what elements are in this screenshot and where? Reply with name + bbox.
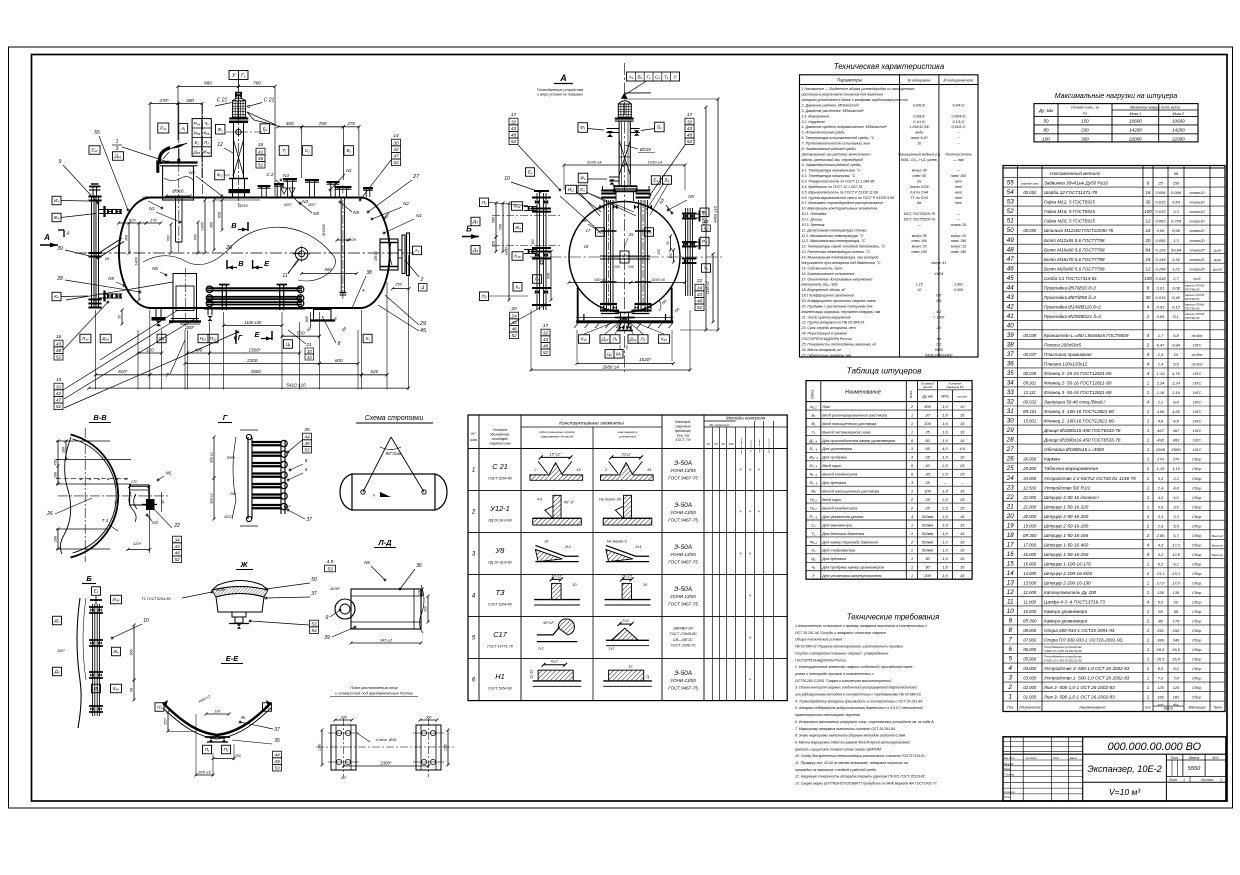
svg-text:10: 10 — [643, 583, 648, 587]
svg-text:01.000: 01.000 — [1023, 695, 1036, 700]
svg-text:Е-Е: Е-Е — [226, 654, 240, 663]
svg-text:0,94: 0,94 — [1172, 342, 1181, 347]
svg-text:Штуцер 1-50-16-460: Штуцер 1-50-16-460 — [1044, 542, 1089, 547]
svg-text:23: 23 — [1006, 484, 1014, 491]
svg-text:нет: нет — [955, 185, 962, 189]
svg-text:Б₁: Б₁ — [657, 125, 662, 130]
svg-text:УОНИ-13/55: УОНИ-13/55 — [670, 468, 696, 473]
svg-text:8,0: 8,0 — [1173, 666, 1179, 671]
svg-text:400: 400 — [286, 121, 294, 126]
svg-text:360: 360 — [210, 221, 214, 228]
svg-text:1: 1 — [911, 556, 913, 561]
svg-text:Камера уровнемера: Камера уровнемера — [1044, 609, 1087, 614]
svg-text:Штуцер 2-50-16-200: Штуцер 2-50-16-200 — [1044, 514, 1089, 519]
svg-text:17,2: 17,2 — [1172, 542, 1181, 547]
svg-text:3: 3 — [911, 446, 914, 451]
svg-text:3: 3 — [472, 552, 476, 558]
svg-text:4: 4 — [1147, 552, 1150, 557]
svg-text:8,8: 8,8 — [1173, 400, 1179, 405]
svg-text:N°: N° — [471, 431, 476, 436]
svg-text:52: 52 — [543, 350, 549, 356]
svg-text:Штуцер 2-50-16-180: Штуцер 2-50-16-180 — [1044, 523, 1089, 528]
svg-text:55: 55 — [94, 130, 100, 136]
svg-text:23. Срок службы аппарата, лет: 23. Срок службы аппарата, лет — [801, 326, 856, 330]
svg-text:ГОСГОРТЕХНАДЗОРом России.: ГОСГОРТЕХНАДЗОРом России. — [795, 658, 847, 662]
svg-text:9.6. Группа взрывоопасной смес: 9.6. Группа взрывоопасной смеси по ГОСТ … — [802, 196, 895, 200]
svg-text:Сбор.: Сбор. — [1192, 562, 1202, 566]
svg-text:45: 45 — [1007, 275, 1014, 282]
svg-text:0,1/1,0/: 0,1/1,0/ — [953, 120, 966, 124]
svg-text:50/мм: 50/мм — [922, 539, 933, 544]
svg-text:Штуцер 1-50-16-165: Штуцер 1-50-16-165 — [1044, 533, 1089, 538]
svg-text:сварочная: сварочная — [675, 425, 691, 429]
svg-text:50/мм: 50/мм — [922, 531, 933, 536]
svg-text:200: 200 — [1080, 127, 1089, 132]
svg-text:37: 37 — [274, 727, 280, 733]
svg-text:4-6: 4-6 — [537, 498, 543, 502]
svg-text:И₃₄: И₃₄ — [113, 597, 120, 602]
svg-text:39: 39 — [1007, 332, 1014, 339]
svg-text:22: 22 — [173, 523, 180, 529]
svg-text:12: 12 — [1146, 219, 1151, 224]
svg-text:паронит ПОН-Б: паронит ПОН-Б — [1185, 294, 1204, 297]
svg-text:П₂: П₂ — [481, 294, 486, 299]
svg-text:09.301: 09.301 — [1023, 381, 1036, 386]
svg-text:0,08: 0,08 — [1172, 285, 1181, 290]
svg-text:38: 38 — [581, 218, 587, 223]
svg-text:08.000: 08.000 — [1023, 628, 1036, 633]
svg-text:риалы и электроды принять в с: риалы и электроды принять в соответствии… — [794, 672, 874, 676]
svg-text:Ду, мм: Ду, мм — [921, 395, 933, 399]
svg-text:18. Внутренний объем, м³: 18. Внутренний объем, м³ — [802, 288, 847, 292]
svg-text:27. Габаритные размеры, мм: 27. Габаритные размеры, мм — [801, 353, 852, 357]
svg-text:Д₅: Д₅ — [472, 219, 478, 224]
svg-text:0,47: 0,47 — [1157, 342, 1166, 347]
svg-text:40: 40 — [1007, 322, 1014, 329]
svg-text:5-500-2,5-2 АТК 24.202.01-90: 5-500-2,5-2 АТК 24.202.01-90 — [1044, 649, 1082, 653]
svg-text:Гайка М12, 5 ГОСТ5915: Гайка М12, 5 ГОСТ5915 — [1044, 199, 1095, 205]
svg-text:ГОСТ 9467-75: ГОСТ 9467-75 — [668, 602, 698, 607]
svg-text:600: 600 — [547, 273, 551, 279]
svg-text:Техническая характеристика: Техническая характеристика — [834, 62, 945, 71]
svg-text:Х₁: Х₁ — [364, 336, 370, 341]
svg-text:4,8: 4,8 — [1158, 419, 1164, 424]
svg-text:12.000: 12.000 — [1023, 590, 1036, 595]
svg-text:N5: N5 — [353, 210, 359, 215]
svg-text:Н.контр.: Н.контр. — [1004, 790, 1016, 794]
svg-text:4,65: 4,65 — [1172, 409, 1181, 414]
svg-text:Условное: Условное — [493, 428, 508, 432]
svg-text:0,268: 0,268 — [1155, 266, 1166, 271]
svg-text:4: 4 — [911, 514, 914, 519]
svg-text:Для камер перепада давления: Для камер перепада давления — [821, 539, 877, 544]
svg-text:0,756: 0,756 — [1171, 219, 1182, 224]
svg-text:—: — — [956, 212, 961, 216]
svg-text:Э-50А: Э-50А — [674, 502, 692, 509]
svg-text:Ц₁: Ц₁ — [811, 556, 816, 561]
svg-text:плюс 55: плюс 55 — [913, 174, 926, 178]
svg-text:16: 16 — [960, 522, 965, 527]
svg-text:Е₂: Е₂ — [195, 140, 200, 145]
svg-text:свариваемых деталей: свариваемых деталей — [541, 435, 574, 439]
svg-text:300: 300 — [305, 315, 309, 322]
svg-text:Е₁₋₃: Е₁₋₃ — [810, 446, 818, 451]
svg-text:Масса: Масса — [1189, 756, 1199, 760]
svg-text:и меры условно не показаны: и меры условно не показаны — [537, 93, 583, 97]
svg-text:7. Продолжительность испытаний: 7. Продолжительность испытаний, мин — [802, 142, 870, 146]
svg-text:6: 6 — [911, 472, 914, 477]
svg-text:12: 12 — [646, 675, 650, 679]
svg-text:Сбор.: Сбор. — [1192, 553, 1202, 557]
svg-text:15. Сейсмичность, балл: 15. Сейсмичность, балл — [802, 266, 843, 270]
svg-text:50: 50 — [1007, 227, 1014, 234]
svg-text:1: 1 — [911, 412, 913, 417]
svg-text:200°: 200° — [56, 648, 66, 653]
svg-text:37: 37 — [311, 591, 317, 597]
svg-text:160°: 160° — [283, 505, 291, 509]
svg-text:У: У — [232, 73, 236, 79]
svg-text:1,15: 1,15 — [916, 283, 923, 287]
svg-text:Гайка М20, 5 ГОСТ5915: Гайка М20, 5 ГОСТ5915 — [1044, 218, 1095, 224]
svg-text:не вскрытие: не вскрытие — [750, 439, 752, 452]
svg-text:21.000: 21.000 — [1022, 504, 1036, 509]
svg-text:давление Ру: давление Ру — [946, 385, 963, 389]
svg-text:52: 52 — [511, 139, 517, 145]
svg-text:14: 14 — [1007, 570, 1014, 577]
svg-text:13. Сварке марки ШХТПБЗНОТ/ОУЗ: 13. Сварке марки ШХТПБЗНОТ/ОУЗВИТ7 прибу… — [795, 782, 938, 786]
svg-text:150: 150 — [669, 253, 673, 259]
svg-text:Теплоноситель: Теплоноситель — [945, 152, 971, 156]
svg-text:Болт М16х60 5.6 ГОСТ7798: Болт М16х60 5.6 ГОСТ7798 — [1044, 247, 1105, 252]
svg-text:5: 5 — [472, 636, 476, 642]
svg-text:да: да — [937, 337, 941, 341]
svg-text:18.1 Коэффициент заполнения: 18.1 Коэффициент заполнения — [802, 294, 855, 298]
svg-text:—: — — [956, 218, 961, 222]
svg-text:2: 2 — [1146, 533, 1150, 538]
svg-text:27: 27 — [412, 174, 420, 180]
svg-text:П₁: П₁ — [205, 747, 210, 752]
svg-text:125: 125 — [1173, 685, 1180, 690]
svg-text:4: 4 — [1147, 352, 1150, 357]
svg-text:Б₁: Б₁ — [263, 126, 268, 131]
svg-text:910*: 910* — [118, 369, 128, 374]
svg-text:00.050: 00.050 — [1023, 228, 1036, 233]
svg-text:52: 52 — [174, 557, 180, 563]
svg-text:—: — — [916, 223, 921, 227]
svg-text:Осевая сила , кг: Осевая сила , кг — [1071, 105, 1099, 109]
svg-text:1 Изготовление, испытание и пр: 1 Изготовление, испытание и приемку аппа… — [795, 624, 927, 628]
svg-text:ГОСТ 5264-80: ГОСТ 5264-80 — [488, 477, 512, 481]
svg-text:Ø57: Ø57 — [307, 203, 316, 207]
svg-text:26,5: 26,5 — [1156, 647, 1166, 652]
svg-text:N3: N3 — [152, 520, 158, 525]
svg-text:сталь10: сталь10 — [1189, 210, 1205, 214]
svg-text:10: 10 — [504, 176, 510, 182]
svg-text:17: 17 — [543, 323, 549, 329]
svg-text:42: 42 — [1007, 303, 1014, 310]
svg-text:Сбор.: Сбор. — [1192, 505, 1202, 509]
svg-text:16: 16 — [647, 468, 652, 472]
svg-text:68: 68 — [1174, 609, 1179, 614]
svg-text:компенсации коррозии, внутренн: компенсации коррозии, внутренн./снаружи,… — [802, 310, 881, 314]
svg-text:0,015: 0,015 — [1155, 200, 1166, 205]
svg-text:16ГС ГОСТ5520-79: 16ГС ГОСТ5520-79 — [903, 212, 935, 216]
svg-text:N3: N3 — [658, 197, 665, 205]
svg-text:9.7. Вызывает сероводородное р: 9.7. Вызывает сероводородное растрескива… — [802, 201, 884, 205]
svg-text:5: 5 — [305, 467, 308, 472]
svg-text:12. Температура самой холодной: 12. Температура самой холодной пятидневк… — [802, 245, 886, 249]
svg-text:54: 54 — [311, 628, 317, 634]
svg-text:3,3: 3,3 — [1173, 514, 1179, 519]
svg-text:2: 2 — [471, 510, 476, 516]
svg-text:материала, (σ)₂₀ /(σ)t,: материала, (σ)₂₀ /(σ)t, — [802, 283, 839, 287]
svg-text:270: 270 — [346, 121, 355, 126]
svg-text:8: 8 — [938, 266, 940, 270]
svg-text:минус 45: минус 45 — [912, 169, 927, 173]
svg-text:1: 1 — [1147, 514, 1150, 519]
svg-text:10. Скобы для крепления теплои: 10. Скобы для крепления теплоизоляции ра… — [795, 754, 926, 758]
svg-text:52: 52 — [56, 355, 62, 361]
svg-text:2,24: 2,24 — [1156, 381, 1166, 386]
svg-text:0,6: 0,6 — [936, 294, 941, 298]
svg-text:0,03: 0,03 — [1157, 304, 1166, 309]
svg-text:0,45: 0,45 — [1172, 295, 1181, 300]
svg-text:160: 160 — [531, 239, 535, 245]
svg-text:1,4: 1,4 — [1158, 362, 1164, 367]
svg-text:Штуцер 1-50-16-250: Штуцер 1-50-16-250 — [1044, 552, 1089, 557]
svg-text:6: 6 — [911, 438, 914, 443]
svg-text:21: 21 — [305, 342, 312, 347]
svg-text:50: 50 — [1043, 119, 1049, 124]
svg-text:К₄: К₄ — [54, 294, 59, 299]
svg-text:43: 43 — [307, 355, 312, 360]
svg-text:минус 33: минус 33 — [951, 245, 966, 249]
svg-text:Кол.: Кол. — [908, 390, 913, 398]
svg-text:Днище Ø1800х16-450 ГОСТ6533-: Днище Ø1800х16-450 ГОСТ6533-78 — [1043, 438, 1121, 443]
svg-text:Экспанзерный газ раствор: моно: Экспанзерный газ раствор: моноэтанол- — [802, 152, 872, 156]
svg-text:Не более 30: Не более 30 — [599, 498, 621, 502]
svg-text:26.000: 26.000 — [1022, 457, 1036, 462]
svg-text:Ду ,мм: Ду ,мм — [1038, 108, 1053, 113]
svg-text:20: 20 — [924, 412, 930, 417]
svg-text:Сбор.: Сбор. — [1192, 610, 1202, 614]
svg-text:200: 200 — [425, 715, 432, 719]
svg-text:1030 ±5: 1030 ±5 — [651, 278, 666, 282]
svg-text:50/мм: 50/мм — [922, 548, 933, 553]
svg-text:32: 32 — [1007, 399, 1014, 406]
svg-text:53: 53 — [274, 766, 280, 772]
svg-text:3: 3 — [1009, 675, 1013, 682]
svg-text:МПа: МПа — [941, 395, 948, 399]
svg-text:Шайба 12 ГОСТ11371-78: Шайба 12 ГОСТ11371-78 — [1044, 189, 1098, 195]
svg-text:100: 100 — [215, 709, 221, 713]
svg-text:14.000: 14.000 — [1023, 571, 1036, 576]
svg-text:00.037: 00.037 — [1023, 352, 1036, 357]
svg-text:0,01: 0,01 — [1157, 285, 1165, 290]
svg-text:84: 84 — [1146, 247, 1151, 252]
svg-text:Н₁: Н₁ — [157, 705, 162, 710]
svg-text:Fz: Fz — [1083, 112, 1087, 116]
svg-text:СВ—08Г2С: СВ—08Г2С — [673, 638, 693, 642]
svg-text:176: 176 — [1173, 619, 1180, 624]
svg-text:4: 4 — [1147, 600, 1150, 605]
svg-text:ГОСТ 9467-75: ГОСТ 9467-75 — [668, 476, 698, 481]
svg-text:22. Группа аппарата по ПБ 03-5: 22. Группа аппарата по ПБ 03-584-03 — [801, 321, 865, 325]
svg-text:12. Наружную поверхность аппар: 12. Наружную поверхность аппарата покрыт… — [795, 775, 926, 779]
svg-text:К₅₆: К₅₆ — [203, 131, 209, 136]
svg-text:+: + — [749, 467, 752, 472]
svg-text:У8: У8 — [495, 546, 506, 555]
svg-text:16ГС ГОСТ5520-79: 16ГС ГОСТ5520-79 — [903, 218, 935, 222]
svg-text:Х₁: Х₁ — [810, 548, 816, 553]
svg-text:12: 12 — [1146, 266, 1151, 271]
svg-text:+: + — [89, 477, 92, 483]
svg-text:Г₁: Г₁ — [812, 429, 816, 434]
svg-text:+: + — [98, 477, 101, 483]
svg-text:37: 37 — [1007, 351, 1014, 358]
svg-text:4: 4 — [1147, 304, 1150, 309]
svg-text:С₁: С₁ — [305, 148, 310, 153]
svg-text:13. Расчетная температура стен: 13. Расчетная температура стенки, °С — [802, 250, 871, 254]
svg-text:У12-1: У12-1 — [489, 504, 510, 513]
svg-text:0,96: 0,96 — [1172, 228, 1181, 233]
svg-text:10: 10 — [960, 404, 965, 409]
svg-text:1: 1 — [938, 321, 940, 325]
svg-text:9.4. Вредность по ГОСТ 12.1.00: 9.4. Вредность по ГОСТ 12.1.007-76 — [802, 185, 863, 189]
svg-text:Полоса 200х50х5: Полоса 200х50х5 — [1044, 342, 1081, 347]
svg-text:2,5: 2,5 — [941, 497, 948, 502]
svg-text:N4: N4 — [661, 299, 667, 305]
svg-text:Сбор.: Сбор. — [1192, 686, 1202, 690]
svg-text:да: да — [917, 180, 921, 184]
svg-text:5410х2680х4400: 5410х2680х4400 — [925, 353, 952, 357]
svg-text:Сбор.: Сбор. — [1192, 696, 1202, 700]
svg-text:Сбор.: Сбор. — [1192, 591, 1202, 595]
svg-text:0,05: 0,05 — [1157, 314, 1166, 319]
svg-text:Наплавленный металл: Наплавленный металл — [1050, 170, 1101, 176]
svg-text:Л₁: Л₁ — [612, 337, 618, 342]
svg-text:2,16: 2,16 — [1156, 390, 1166, 395]
svg-text:4,8: 4,8 — [1173, 419, 1179, 424]
svg-text:16ГС: 16ГС — [1193, 439, 1202, 443]
svg-text:Гайка М16, 5 ГОСТ5915: Гайка М16, 5 ГОСТ5915 — [1044, 208, 1095, 214]
svg-text:Э-50А: Э-50А — [674, 670, 692, 677]
svg-text:60°: 60° — [341, 776, 347, 780]
svg-text:С 21: С 21 — [217, 98, 228, 104]
svg-text:5410 ±10: 5410 ±10 — [286, 382, 306, 387]
svg-text:П₁₂: П₁₂ — [210, 336, 217, 341]
svg-text:Для указателя уровня: Для указателя уровня — [821, 514, 863, 519]
svg-text:Камера уровнемера: Камера уровнемера — [1044, 619, 1087, 624]
svg-text:20.000: 20.000 — [1022, 514, 1036, 519]
svg-text:ц: ц — [373, 493, 375, 497]
svg-text:Для продувки: Для продувки — [821, 455, 847, 460]
svg-text:2: 2 — [533, 468, 537, 472]
svg-text:12,8: 12,8 — [1172, 552, 1181, 557]
svg-text:раствора в результате снижения: раствора в результате снижения для давле… — [801, 93, 884, 97]
svg-text:39: 39 — [324, 635, 330, 641]
svg-text:4,0: 4,0 — [1173, 495, 1179, 500]
svg-text:Ж₂: Ж₂ — [645, 230, 652, 235]
svg-text:2: 2 — [910, 404, 914, 409]
svg-text:25: 25 — [924, 480, 930, 485]
svg-text:39: 39 — [57, 246, 63, 252]
svg-text:300: 300 — [62, 447, 66, 453]
svg-text:паронит ПОН-Б: паронит ПОН-Б — [1185, 304, 1204, 307]
svg-text:С₁: С₁ — [655, 75, 660, 80]
svg-text:3,3: 3,3 — [1158, 476, 1164, 481]
svg-text:Ж₁₋₃: Ж₁₋₃ — [808, 455, 818, 460]
svg-text:~: ~ — [957, 131, 959, 135]
svg-text:Технические требования: Технические требования — [847, 613, 940, 622]
svg-text:0R.300: 0R.300 — [1023, 533, 1037, 538]
svg-text:У: У — [674, 75, 678, 80]
svg-text:5. Аппарат подвергнуть гидроис: 5. Аппарат подвергнуть гидроиспытанию да… — [795, 706, 923, 710]
svg-text:Опора ПЛ 300-933-1 ОСТ26-2091-: Опора ПЛ 300-933-1 ОСТ26-2091-93 — [1044, 638, 1123, 643]
svg-text:Ц₁: Ц₁ — [607, 351, 612, 356]
svg-text:Ø57: Ø57 — [283, 203, 292, 207]
svg-text:2,85: 2,85 — [1156, 533, 1166, 538]
svg-text:2: 2 — [910, 505, 914, 510]
svg-text:N1: N1 — [416, 213, 422, 218]
svg-text:5,6: 5,6 — [1173, 362, 1179, 367]
svg-text:52: 52 — [393, 160, 399, 166]
svg-text:12-16: 12-16 — [530, 670, 534, 679]
svg-text:500: 500 — [130, 650, 134, 656]
svg-text:Масса: Масса — [1164, 706, 1174, 710]
svg-text:17,0: 17,0 — [1157, 580, 1166, 585]
svg-text:450: 450 — [54, 460, 58, 466]
svg-text:1: 1 — [1147, 666, 1150, 671]
svg-text:Г₁: Г₁ — [647, 75, 651, 80]
svg-text:38: 38 — [366, 270, 372, 276]
svg-text:2: 2 — [1146, 485, 1150, 490]
svg-text:02.000: 02.000 — [1023, 685, 1036, 690]
svg-text:1030 ±4: 1030 ±4 — [587, 159, 602, 164]
svg-text:+: + — [749, 635, 752, 640]
svg-text:20: 20 — [1145, 238, 1151, 243]
svg-text:Р₁₂: Р₁₂ — [160, 126, 167, 131]
svg-text:Шпилька М12х60 ГОСТ22040-76: Шпилька М12х60 ГОСТ22040-76 — [1044, 228, 1114, 233]
svg-text:сосудов и аппаратов стальных с: сосудов и аппаратов стальных сварных", у… — [795, 651, 889, 655]
svg-text:16: 16 — [56, 334, 62, 340]
svg-text:Схема строповки: Схема строповки — [365, 415, 424, 422]
svg-text:100: 100 — [1144, 209, 1152, 214]
svg-text:1,6: 1,6 — [942, 573, 948, 578]
svg-text:или радиационным методом в соо: или радиационным методом в соответствии … — [795, 693, 922, 697]
svg-text:Для термометра: Для термометра — [821, 548, 856, 553]
svg-text:Л₂: Л₂ — [93, 686, 99, 691]
svg-text:1: 1 — [1147, 390, 1150, 395]
svg-text:Устройство 50/ R1/2: Устройство 50/ R1/2 — [1044, 484, 1091, 490]
svg-text:Люк 3- 500-1,0-1 ОСТ 26-2002: Люк 3- 500-1,0-1 ОСТ 26-2002-83 — [1043, 695, 1115, 700]
svg-text:0,006: 0,006 — [954, 288, 963, 292]
svg-text:0,145: 0,145 — [1155, 257, 1166, 262]
svg-text:Сбор.: Сбор. — [1192, 658, 1202, 662]
svg-text:С 21: С 21 — [264, 98, 275, 104]
svg-text:6,8: 6,8 — [1173, 333, 1179, 338]
svg-text:1: 1 — [1220, 778, 1222, 782]
svg-text:300: 300 — [1081, 136, 1089, 141]
svg-text:1: 1 — [1147, 457, 1150, 462]
svg-text:И₁₂: И₁₂ — [568, 187, 575, 192]
svg-text:9.1. Температура минимальная,: 9.1. Температура минимальная, °С — [802, 169, 862, 173]
svg-text:Фланец 2- 25-25 ГОСТ12821-8: Фланец 2- 25-25 ГОСТ12821-80 — [1044, 371, 1112, 376]
svg-text:0,9/9,0/: 0,9/9,0/ — [913, 114, 926, 118]
svg-text:и отверстий под фундаментные б: и отверстий под фундаментные болты — [335, 691, 413, 696]
svg-text:12.500: 12.500 — [1023, 485, 1036, 490]
svg-text:2300*: 2300* — [380, 760, 392, 765]
